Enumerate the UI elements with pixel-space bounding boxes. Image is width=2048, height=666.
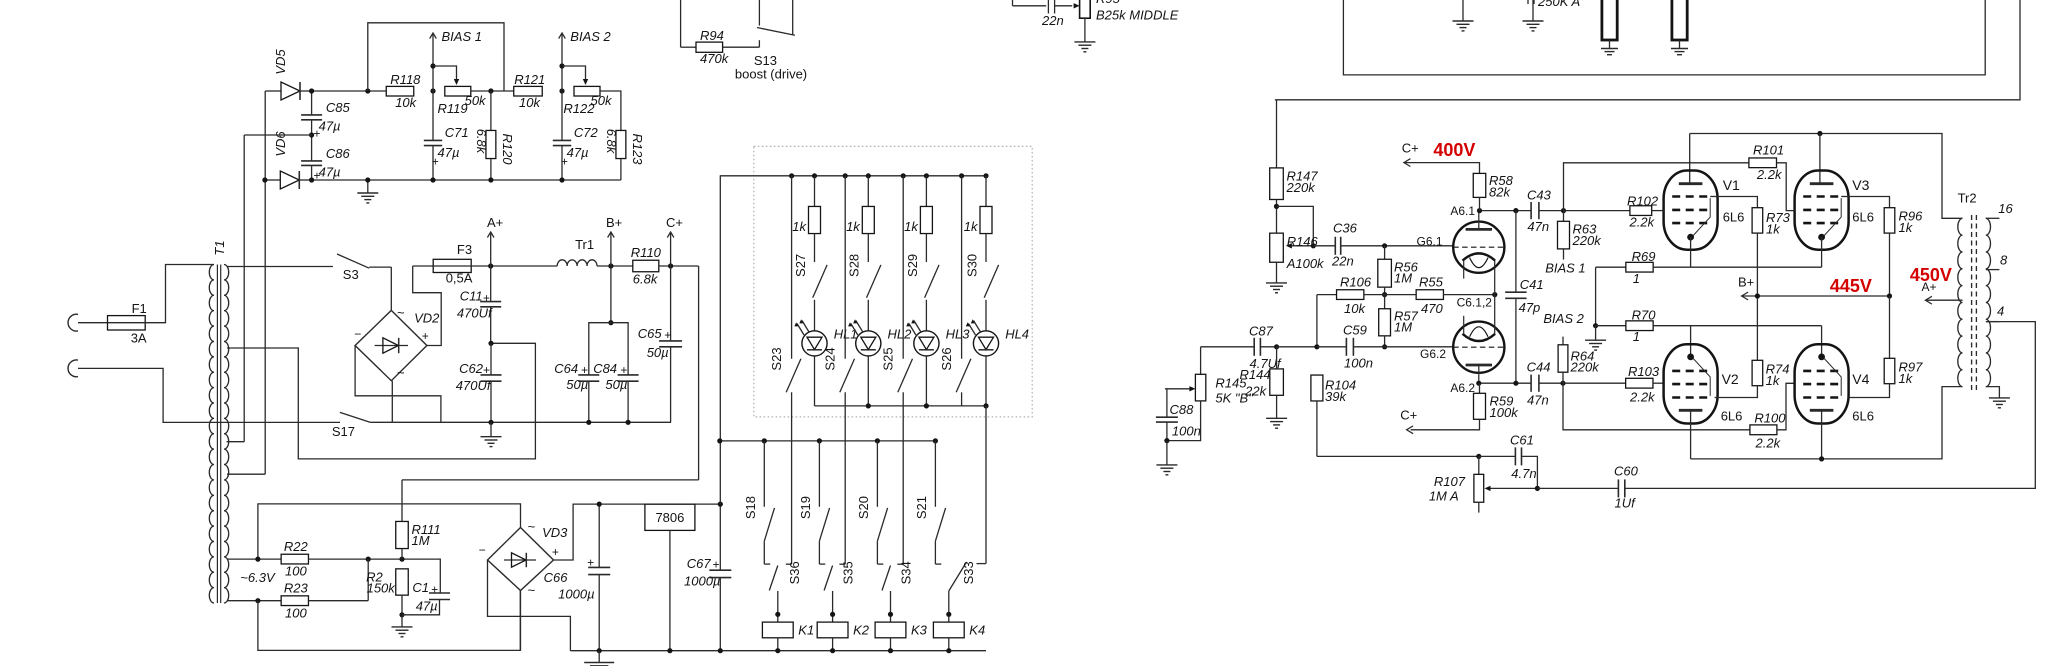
- svg-text:+: +: [313, 127, 320, 141]
- svg-text:6.8k: 6.8k: [633, 272, 659, 287]
- svg-text:K4: K4: [969, 622, 985, 637]
- node C87-R144: [1274, 344, 1279, 349]
- resistor R55: [1416, 290, 1443, 300]
- tube V4 anode: [1810, 409, 1834, 412]
- svg-text:47µ: 47µ: [416, 599, 438, 614]
- capacitor C36: [1313, 245, 1335, 247]
- svg-text:1M: 1M: [412, 533, 430, 548]
- ground inside box 1: [1462, 0, 1464, 21]
- svg-text:C61: C61: [1510, 433, 1534, 448]
- svg-text:V2: V2: [1722, 371, 1739, 387]
- svg-text:6L6: 6L6: [1723, 210, 1745, 225]
- resistor R96: [1884, 208, 1895, 233]
- wire VD5 anode vertical from T1 tap: [264, 91, 266, 474]
- svg-text:+: +: [422, 329, 429, 343]
- svg-text:82k: 82k: [1489, 185, 1511, 200]
- wire V3 screen to R96: [1841, 196, 1848, 198]
- wire V4 cathode rise: [1821, 326, 1823, 357]
- svg-text:1: 1: [1633, 329, 1640, 344]
- svg-text:450V: 450V: [1910, 265, 1952, 285]
- resistor R101: [1749, 158, 1777, 168]
- wire R103 to V2 grid: [1653, 382, 1664, 384]
- switch S36: [769, 566, 778, 591]
- wire relay coil bus: [720, 440, 936, 442]
- wire secondary ground: [1986, 387, 2000, 398]
- svg-text:~: ~: [528, 583, 536, 598]
- wire V2 anode drop: [1690, 410, 1692, 459]
- resistor R102: [1564, 210, 1630, 212]
- svg-text:2.2k: 2.2k: [1629, 215, 1656, 230]
- svg-text:BIAS 2: BIAS 2: [1543, 311, 1584, 326]
- net A+ arrow: [488, 263, 493, 268]
- svg-text:+: +: [561, 155, 568, 169]
- svg-text:22n: 22n: [1331, 254, 1354, 269]
- wire VD2 minus to ground rail: [355, 346, 441, 423]
- node C66 top: [597, 502, 602, 507]
- switch S17: [340, 412, 371, 422]
- svg-text:+: +: [587, 556, 594, 570]
- svg-text:R118: R118: [390, 72, 421, 87]
- node R121-R122: [559, 88, 564, 93]
- svg-text:+: +: [581, 363, 588, 377]
- svg-text:50µ: 50µ: [605, 377, 627, 392]
- svg-text:S28: S28: [847, 254, 862, 277]
- svg-text:Tr2: Tr2: [1958, 191, 1977, 206]
- svg-text:K3: K3: [911, 622, 928, 637]
- resistor R123: [600, 91, 621, 131]
- svg-text:C72: C72: [574, 125, 599, 140]
- net C+ arrow: [659, 265, 699, 267]
- capacitor C59: [1345, 338, 1347, 356]
- wire heater bus upper: [258, 504, 521, 559]
- node C85-C86 junction: [309, 132, 314, 137]
- capacitor C85: [311, 91, 313, 115]
- resistor R94: [696, 42, 723, 52]
- wire anode row A6.2: [1479, 382, 1531, 384]
- switch S29: [925, 265, 939, 298]
- potentiometer R119: [445, 86, 471, 96]
- svg-text:C88: C88: [1170, 402, 1195, 417]
- svg-text:S36: S36: [787, 561, 802, 584]
- svg-text:2.2k: 2.2k: [1755, 436, 1782, 451]
- wire R69 R70 ground leg: [1595, 267, 1597, 326]
- svg-text:+: +: [712, 558, 719, 572]
- svg-text:100: 100: [285, 564, 307, 579]
- wire ground rail: [392, 421, 671, 423]
- node C61-C60 join: [1535, 486, 1540, 491]
- switch S20: [876, 441, 878, 507]
- triode G6.1 anode: [1466, 228, 1492, 231]
- node S21 top: [933, 438, 938, 443]
- svg-text:1k: 1k: [1766, 222, 1781, 237]
- svg-text:10k: 10k: [519, 95, 541, 110]
- svg-text:220k: 220k: [1572, 233, 1603, 248]
- capacitor C72: [561, 91, 563, 140]
- wire R22 to C1: [308, 559, 440, 593]
- svg-text:~: ~: [397, 365, 405, 380]
- potentiometer R107: [1478, 456, 1480, 474]
- tube V1 cathode: [1687, 234, 1694, 241]
- tube V1 anode: [1679, 182, 1703, 185]
- net B+ arrow: [597, 265, 633, 267]
- wire bypass to R121: [368, 23, 504, 91]
- svg-text:S33: S33: [961, 561, 976, 584]
- wire 6V feed riser: [719, 176, 721, 504]
- wire A6.2 to R100: [1563, 383, 1750, 430]
- svg-text:A+: A+: [487, 215, 503, 230]
- node ground leg: [1593, 323, 1598, 328]
- svg-text:1k: 1k: [1899, 371, 1914, 386]
- switch S24: [840, 359, 855, 393]
- tube V2 anode: [1679, 409, 1703, 412]
- wire R104 to R107 row: [1317, 455, 1479, 457]
- regulator 7806: [645, 504, 695, 530]
- svg-text:C67: C67: [687, 556, 712, 571]
- wire outer box outline: [1275, 0, 2020, 100]
- wire tone input: [1012, 0, 1014, 6]
- resistor R111: [401, 480, 403, 522]
- resistor R106: [1337, 290, 1364, 300]
- resistor R120: [490, 91, 492, 131]
- node C72 bottom: [559, 177, 564, 182]
- wire bias node A: [312, 90, 387, 92]
- node C41 bottom: [1513, 381, 1518, 386]
- tube V1 envelope: [1664, 171, 1718, 250]
- wire V1 anode: [1689, 134, 1691, 184]
- svg-text:50µ: 50µ: [647, 345, 669, 360]
- transformer T1 core: [216, 265, 218, 604]
- svg-text:150k: 150k: [367, 581, 397, 596]
- svg-text:470Uf: 470Uf: [457, 306, 493, 321]
- svg-text:G6.2: G6.2: [1420, 347, 1446, 361]
- svg-text:1M A: 1M A: [1429, 489, 1459, 504]
- wire T1 heater tap to R23: [227, 600, 281, 602]
- svg-text:R107: R107: [1434, 474, 1466, 489]
- wire LED feed bus: [720, 175, 986, 177]
- node cathode C6.1,2: [1492, 292, 1497, 297]
- resistor R64: [1562, 337, 1564, 345]
- svg-text:1k: 1k: [904, 219, 919, 234]
- svg-text:1k: 1k: [964, 219, 979, 234]
- potentiometer R146: [1270, 233, 1284, 262]
- svg-text:~6.3V: ~6.3V: [240, 570, 276, 585]
- svg-text:50k: 50k: [465, 93, 487, 108]
- connector XS2: [68, 360, 78, 377]
- capacitor C66: [598, 504, 600, 567]
- bridge rectifier VD3: [488, 528, 554, 591]
- capacitor C60: [1537, 487, 1618, 489]
- svg-text:1k: 1k: [846, 219, 861, 234]
- svg-text:A6.1: A6.1: [1450, 204, 1475, 218]
- wire R94 to S13: [723, 46, 760, 48]
- wire HL4 column to S33 contact: [985, 406, 987, 564]
- svg-text:250K A: 250K A: [1537, 0, 1580, 9]
- node S19 top: [817, 438, 822, 443]
- switch S24 upper column: [843, 173, 848, 178]
- svg-text:R55: R55: [1419, 275, 1444, 290]
- node C36-R56: [1382, 243, 1387, 248]
- switch S21: [934, 441, 936, 507]
- wire XS2 to S17: [78, 368, 340, 422]
- transformer Tr2 core: [1971, 215, 1973, 390]
- wire rail A segment: [471, 265, 557, 267]
- svg-text:+: +: [552, 545, 559, 559]
- svg-text:F1: F1: [132, 301, 147, 316]
- node A6.2 out: [1560, 381, 1565, 386]
- svg-text:S34: S34: [899, 561, 914, 584]
- node R111 bottom: [399, 557, 404, 562]
- node VD6 anode: [262, 177, 267, 182]
- resistor R103: [1626, 378, 1653, 388]
- svg-text:~: ~: [528, 519, 536, 534]
- svg-text:BIAS 1: BIAS 1: [1545, 260, 1585, 275]
- resistor R104: [1311, 375, 1323, 401]
- ground under B25k pot: [1084, 18, 1086, 42]
- resistor R144: [1276, 347, 1278, 369]
- svg-text:1k: 1k: [1899, 220, 1914, 235]
- resistor 1k column 1: [814, 176, 816, 207]
- relay coil K3: [890, 591, 892, 622]
- svg-text:C64: C64: [554, 361, 578, 376]
- svg-text:C62: C62: [459, 361, 484, 376]
- wire anode row A6.1: [1480, 210, 1532, 212]
- resistor R56: [1384, 246, 1386, 259]
- resistor R97: [1889, 296, 1891, 358]
- transformer T1 primary winding: [209, 265, 214, 604]
- wire G6.2 grid row: [1201, 346, 1255, 348]
- svg-text:470Uf: 470Uf: [456, 378, 492, 393]
- wire R97 to V4 screen: [1849, 384, 1890, 398]
- svg-text:R145: R145: [1215, 376, 1247, 391]
- tube V4 envelope: [1795, 344, 1849, 423]
- svg-text:5K "B": 5K "B": [1215, 391, 1254, 406]
- svg-text:S18: S18: [743, 496, 758, 519]
- svg-text:C66: C66: [544, 570, 569, 585]
- capacitor C62: [490, 343, 492, 375]
- resistor 1k column 3: [925, 176, 927, 207]
- svg-text:7806: 7806: [655, 510, 684, 525]
- switch S34: [882, 566, 891, 591]
- wire R69 to V3 cathode: [1653, 266, 1822, 268]
- wire R146 wiper loop: [1277, 206, 1314, 245]
- node C62 ground: [488, 420, 493, 425]
- svg-text:47n: 47n: [1527, 219, 1549, 234]
- svg-text:C43: C43: [1527, 188, 1552, 203]
- svg-text:VD5: VD5: [273, 49, 288, 75]
- resistor R63: [1563, 211, 1565, 222]
- transformer Tr2 secondary: [1986, 218, 1991, 386]
- svg-text:S26: S26: [939, 347, 954, 370]
- wire R119 right to R120: [471, 90, 514, 92]
- svg-text:−: −: [354, 327, 361, 341]
- svg-text:R70: R70: [1632, 307, 1657, 322]
- svg-text:G6.1: G6.1: [1416, 235, 1442, 249]
- svg-text:R123: R123: [630, 133, 645, 165]
- wire A6.2 to R103: [1563, 382, 1626, 384]
- svg-text:S19: S19: [798, 496, 813, 519]
- capacitor C86: [301, 160, 322, 162]
- potentiometer R145: [1200, 347, 1202, 375]
- svg-text:6L6: 6L6: [1852, 210, 1874, 225]
- svg-text:S23: S23: [769, 347, 784, 370]
- svg-text:470k: 470k: [700, 51, 730, 66]
- ground below C66: [598, 651, 600, 663]
- svg-text:K2: K2: [853, 622, 870, 637]
- svg-text:47µ: 47µ: [438, 145, 460, 160]
- wire S17 to VD2 AC: [370, 421, 392, 423]
- node R22 tap: [255, 557, 260, 562]
- triode G6.1 cathode: [1463, 253, 1496, 260]
- svg-text:C65: C65: [638, 326, 663, 341]
- wire R101 to V3 grid: [1777, 163, 1795, 211]
- triode G6.2 envelope: [1453, 322, 1504, 373]
- switch S28: [867, 265, 881, 298]
- svg-text:16: 16: [1998, 201, 2013, 216]
- svg-text:R100: R100: [1754, 411, 1786, 426]
- svg-text:S21: S21: [914, 496, 929, 519]
- node S18 top: [762, 438, 767, 443]
- capacitor C41: [1515, 211, 1517, 293]
- node R147 bottom: [1274, 204, 1279, 209]
- svg-text:+: +: [664, 328, 671, 342]
- svg-text:C59: C59: [1343, 323, 1367, 338]
- fader pot bar 1: [1602, 0, 1617, 40]
- tube V3 cathode: [1818, 234, 1825, 241]
- svg-text:VD2: VD2: [414, 311, 440, 326]
- node C88 bottom: [1164, 438, 1169, 443]
- wire VD3 AC bottom: [520, 591, 522, 651]
- wire R101 feed riser: [1564, 163, 1749, 211]
- svg-text:C84: C84: [593, 361, 617, 376]
- relay coil K2: [832, 591, 834, 622]
- capacitor C84: [618, 374, 639, 376]
- wire V3 cathode drop: [1821, 237, 1823, 267]
- svg-text:S35: S35: [841, 561, 856, 584]
- resistor R73: [1752, 208, 1763, 233]
- wire B+ vertical: [1756, 296, 1758, 360]
- wire bus to C plus rail: [402, 479, 699, 481]
- svg-text:445V: 445V: [1830, 276, 1872, 296]
- wire T1 secondary top to S3: [227, 266, 333, 268]
- ground inside box 2: [1532, 0, 1534, 21]
- wire T1 HV tap to doubler mid: [227, 343, 535, 459]
- switch S23 upper column: [789, 173, 794, 178]
- LED HL1: [814, 300, 816, 331]
- relay coil K4: [948, 591, 950, 622]
- tube V3 grids: [1803, 195, 1841, 198]
- node LED column 2: [866, 173, 871, 178]
- triode G6.1 envelope: [1453, 222, 1504, 273]
- svg-text:R102: R102: [1627, 194, 1659, 209]
- resistor R147: [1270, 168, 1284, 200]
- capacitor C11: [490, 266, 492, 302]
- svg-text:S3: S3: [343, 267, 359, 282]
- node V4 anode bus: [1819, 456, 1824, 461]
- wire R74 to V2 screen: [1715, 386, 1758, 398]
- node R56 bottom: [1382, 292, 1387, 297]
- wire S26 lower stub: [961, 392, 963, 406]
- capacitor C87: [1253, 338, 1255, 356]
- svg-text:B25k MIDDLE: B25k MIDDLE: [1096, 7, 1179, 22]
- svg-text:+: +: [620, 363, 627, 377]
- node doubler mid: [488, 341, 493, 346]
- resistor R70: [1596, 325, 1626, 327]
- svg-text:50µ: 50µ: [566, 377, 588, 392]
- svg-text:100k: 100k: [1490, 405, 1520, 420]
- wire VD3 plus to 7806 rail: [554, 504, 721, 560]
- diode VD6: [265, 179, 280, 181]
- wire R106 left riser: [1316, 295, 1318, 347]
- svg-text:HL2: HL2: [888, 327, 913, 342]
- svg-text:220k: 220k: [1570, 360, 1601, 375]
- svg-text:S25: S25: [881, 347, 896, 370]
- svg-text:3A: 3A: [131, 331, 147, 346]
- node R120 bottom: [488, 177, 493, 182]
- node V3 anode bus: [1817, 131, 1822, 136]
- svg-text:100: 100: [285, 606, 307, 621]
- node A6.2: [1476, 381, 1481, 386]
- svg-text:R23: R23: [284, 581, 309, 596]
- ground below R144: [1266, 417, 1287, 419]
- wire grid G6.1: [1385, 245, 1454, 247]
- switch S26 upper column: [959, 173, 964, 178]
- tube V4 cathode: [1818, 354, 1825, 361]
- relay coil K1: [777, 591, 779, 622]
- resistor 1k column 4: [985, 176, 987, 207]
- svg-text:VD3: VD3: [542, 525, 568, 540]
- svg-text:S29: S29: [905, 254, 920, 277]
- svg-text:V3: V3: [1852, 177, 1869, 193]
- svg-text:R121: R121: [514, 72, 545, 87]
- wire B+ branch to C64 C84: [610, 266, 612, 323]
- svg-text:1: 1: [1633, 271, 1640, 286]
- net BIAS 1 riser: [432, 34, 434, 91]
- node S20 top: [875, 438, 880, 443]
- node ground tap: [365, 177, 370, 182]
- LED HL4: [985, 300, 987, 331]
- dotted selector box: [754, 146, 1032, 417]
- svg-text:K1: K1: [798, 622, 814, 637]
- svg-text:A6.2: A6.2: [1450, 381, 1475, 395]
- node LED column 3: [924, 173, 929, 178]
- svg-text:0,5A: 0,5A: [446, 271, 473, 286]
- switch S19: [818, 441, 820, 507]
- node R107 top: [1476, 454, 1481, 459]
- wire R55 to cathodes: [1444, 294, 1495, 296]
- svg-text:+: +: [483, 363, 490, 377]
- fader pot bar 2: [1672, 0, 1687, 40]
- svg-text:4.7n: 4.7n: [1511, 466, 1536, 481]
- svg-text:C44: C44: [1527, 360, 1551, 375]
- potentiometer R95 B25k MIDDLE: [1080, 0, 1091, 18]
- svg-text:2.2k: 2.2k: [1629, 390, 1656, 405]
- wire 16 ohm tap: [1986, 217, 2000, 219]
- wire 8 ohm tap: [1986, 269, 2000, 271]
- wire bias bottom rail: [312, 179, 621, 181]
- tube V3 anode: [1810, 182, 1834, 185]
- switch S25 upper column: [901, 173, 906, 178]
- svg-text:R22: R22: [284, 539, 309, 554]
- bridge rectifier VD2: [355, 310, 427, 380]
- resistor R59: [1479, 383, 1481, 393]
- node C41 top: [1513, 208, 1518, 213]
- svg-text:S20: S20: [856, 496, 871, 519]
- wire rail right drop: [698, 266, 700, 480]
- svg-text:100n: 100n: [1344, 356, 1373, 371]
- svg-text:S24: S24: [823, 347, 838, 370]
- node A6.1 out: [1561, 208, 1566, 213]
- switch S13: [758, 0, 760, 26]
